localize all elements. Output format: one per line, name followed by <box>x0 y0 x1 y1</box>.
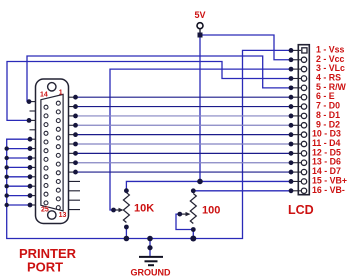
LCD junction dots <box>289 48 294 193</box>
10K bottom terminal dot <box>124 225 129 230</box>
junction dot 10K bottom on bus <box>124 236 130 242</box>
wire RS loop from DB25 pin16 stub to LCD pin4 <box>7 62 292 121</box>
wire bus taps rows 18-25 <box>7 149 30 205</box>
LCD pins 2-16 circles <box>301 57 306 193</box>
100 bottom terminal dot <box>191 227 196 232</box>
LCD connector body <box>298 45 309 195</box>
wire data row3 DB25 pin3 to LCD pin8 D1 <box>76 115 293 117</box>
LCD pin labels <box>312 44 347 194</box>
wire ground bus: left bus, bottom bus, up to LCD pin1 Vss <box>7 50 292 238</box>
wire data row6 DB25 pin6 to LCD pin11 D4 <box>76 143 293 145</box>
junction dot ground tap on bus <box>147 236 153 242</box>
svg-text:LCD: LCD <box>288 203 314 217</box>
wire VB-: 100 pot top to LCD pin16 <box>193 190 292 192</box>
10K wiper dot <box>111 208 116 213</box>
svg-text:14: 14 <box>40 92 48 99</box>
wire 10K bottom to ground bus <box>125 227 127 239</box>
LCD stubs <box>291 50 301 190</box>
5V terminal <box>197 23 203 29</box>
svg-text:10K: 10K <box>134 202 154 214</box>
svg-text:1: 1 <box>59 89 63 96</box>
DB25 right pins 1-13 <box>56 101 60 209</box>
wire 100 pot wiper loop to bottom terminal <box>176 214 193 229</box>
potentiometer 100 zigzag <box>190 194 196 224</box>
100 top terminal dot <box>191 188 196 193</box>
svg-text:16 - VB-: 16 - VB- <box>312 185 345 195</box>
10K top terminal dot <box>124 188 129 193</box>
DB25 left pins 14-25 <box>44 105 48 205</box>
100 wiper dot <box>177 212 182 217</box>
potentiometer 10K zigzag <box>123 193 129 223</box>
wire data row9 DB25 pin9 to LCD pin14 D7 <box>76 171 293 173</box>
10K wiper arrow <box>114 209 122 211</box>
svg-text:13: 13 <box>59 212 67 219</box>
wire 5V vertical down to VB+ row <box>199 35 201 181</box>
LCD pin1 square <box>302 48 307 53</box>
DB25 right stubs rows 1-9 <box>63 97 76 172</box>
wire 100 pot bottom to ground bus <box>192 230 194 239</box>
junction dot 5V on VB+ row <box>197 179 203 185</box>
wire VB+ row: 10K top to LCD pin15 <box>126 181 292 190</box>
svg-text:100: 100 <box>202 205 220 217</box>
DB25 mounting hole bottom <box>48 211 56 219</box>
wire data row8 DB25 pin8 to LCD pin13 D6 <box>76 162 293 164</box>
wire R/W loop from DB25 pin14 stub to LCD pin5 <box>27 56 292 102</box>
wire data row1 DB25 pin1 to LCD pin6 E <box>76 96 293 98</box>
svg-text:GROUND: GROUND <box>131 267 171 277</box>
wire ground tap <box>149 239 151 257</box>
DB25 mounting hole top <box>48 83 56 91</box>
junction dots DB25 right rows 1-9 <box>73 95 78 175</box>
DB25 shell <box>41 94 63 210</box>
junction dots DB25 left side <box>27 99 33 207</box>
wire data row2 DB25 pin2 to LCD pin7 D0 <box>76 106 293 108</box>
DB25 left stubs (12 rows) <box>29 102 41 205</box>
connector DB25 body <box>36 79 69 224</box>
junction dot 100 bottom on bus <box>190 236 196 242</box>
wire VLc: 10K wiper to LCD pin3 <box>110 69 292 210</box>
wire data row4 DB25 pin4 to LCD pin9 D2 <box>76 124 293 126</box>
junction dots left bus <box>5 146 9 207</box>
wire 5V to LCD pin2 Vcc <box>200 35 292 60</box>
svg-text:25: 25 <box>41 207 49 214</box>
wire data row7 DB25 pin7 to LCD pin12 D5 <box>76 152 293 154</box>
wire data row5 DB25 pin5 to LCD pin10 D3 <box>76 134 293 136</box>
ground symbol <box>147 245 152 250</box>
DB25 right bare stubs pins 10-13 <box>63 181 80 209</box>
100 wiper arrow <box>180 213 188 215</box>
svg-text:5V: 5V <box>195 10 206 20</box>
svg-text:PORT: PORT <box>27 259 63 274</box>
